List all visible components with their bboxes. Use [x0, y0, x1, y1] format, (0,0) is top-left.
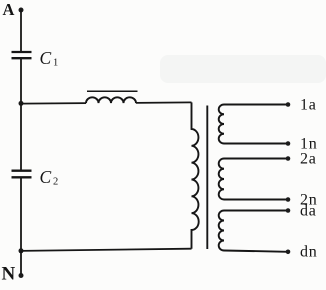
label C1 — [40, 48, 59, 69]
label 2n — [300, 192, 318, 209]
svg-text:2: 2 — [53, 177, 58, 188]
terminal dot 2a — [286, 156, 291, 161]
svg-text:1a: 1a — [300, 97, 317, 114]
svg-text:2a: 2a — [300, 151, 317, 168]
svg-text:C: C — [40, 167, 52, 187]
junction — [19, 101, 24, 106]
transformer primary winding — [192, 102, 199, 248]
secondary winding 1 — [219, 105, 288, 144]
wire — [21, 102, 86, 105]
label 2a — [300, 151, 317, 168]
svg-text:da: da — [300, 203, 317, 220]
svg-text:dn: dn — [300, 244, 318, 261]
svg-text:N: N — [2, 264, 16, 285]
wire — [20, 10, 22, 51]
inductor core bar — [87, 90, 138, 92]
wire — [21, 249, 192, 251]
wire — [20, 178, 22, 250]
terminal dot da — [286, 208, 291, 213]
label C2 — [40, 167, 59, 188]
inductor L — [86, 97, 136, 103]
svg-text:C: C — [40, 48, 52, 68]
label 1a — [300, 97, 317, 114]
terminal dot N — [19, 273, 24, 278]
wire — [20, 251, 22, 275]
secondary winding 3 — [219, 211, 288, 252]
label dn — [300, 244, 318, 261]
transformer core — [206, 106, 208, 250]
wire — [136, 101, 192, 104]
terminal dot 1n — [286, 141, 291, 146]
node N — [2, 264, 16, 285]
wire — [20, 59, 22, 103]
capacitor C2 — [12, 171, 32, 178]
secondary winding 2 — [219, 159, 288, 200]
terminal dot 1a — [286, 102, 291, 107]
svg-text:A: A — [3, 0, 15, 19]
svg-text:1: 1 — [53, 58, 58, 69]
node A — [3, 0, 15, 19]
terminal dot A — [19, 8, 24, 13]
capacitor C1 — [12, 52, 32, 58]
terminal dot 2n — [286, 197, 291, 202]
terminal dot dn — [286, 250, 291, 255]
junction — [19, 248, 24, 253]
label 1n — [300, 136, 318, 153]
label da — [300, 203, 317, 220]
wire — [20, 103, 22, 170]
